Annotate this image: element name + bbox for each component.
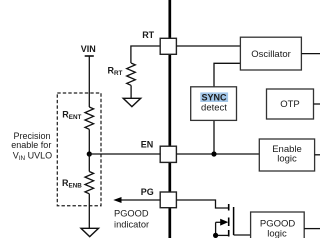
block OTP [267,89,314,119]
svg-text:logic: logic [267,228,287,238]
svg-text:VIN: VIN [81,44,96,54]
node junction dot on EN wire [211,151,216,156]
resistor RENT [85,107,94,129]
label Precision enable for VIN UVLO [11,131,52,162]
svg-text:Oscillator: Oscillator [251,49,291,60]
svg-text:detect: detect [201,103,227,114]
wire RENB to ground [88,194,90,229]
node MOSFET source junction dot [213,233,218,238]
svg-text:RT: RT [142,30,154,40]
wire IC boundary RT to EN [168,54,171,146]
wire EN divider to EN pin [89,153,160,155]
transistor PGOOD MOSFET [216,204,234,237]
resistor RENB [85,172,94,194]
wire EN pin to Enable logic [176,153,259,155]
svg-text:VIN UVLO: VIN UVLO [13,151,52,163]
svg-text:RRT: RRT [108,66,123,78]
node EN junction dot [87,151,92,156]
wire MOSFET gate to PGOOD logic [234,234,251,236]
ground under RENB [81,228,99,236]
wire PGOOD logic output [304,228,320,230]
pin EN [160,146,176,162]
block SYNC detect [191,87,237,121]
wire SYNC detect to EN wire [213,120,215,154]
wire IC boundary top segment [168,0,171,39]
wire RT pin to Oscillator [176,45,240,47]
block PGOOD logic [251,212,305,240]
svg-text:PG: PG [141,187,154,197]
ground under RRT [123,98,141,106]
svg-text:enable for: enable for [11,140,51,150]
wire RRT to ground [130,85,132,98]
dashed box precision enable [57,93,101,206]
pin PG [160,192,176,208]
wire RENT to EN node [88,129,90,154]
svg-text:logic: logic [277,154,297,165]
wire Enable logic output [315,154,320,156]
op Oscillator block [240,37,301,70]
wire IC boundary bottom segment [168,208,171,238]
block Enable logic [259,139,314,171]
label PGOOD indicator [114,209,149,230]
svg-text:RENT: RENT [62,109,81,121]
wire VIN to RENT [88,56,90,107]
wire PGOOD indicator arrow [113,197,160,203]
resistor RRT [127,63,136,85]
svg-text:indicator: indicator [114,220,149,230]
node VIN terminal bar [85,55,94,57]
wire OTP output [314,103,320,105]
svg-text:RENB: RENB [62,178,82,190]
svg-text:EN: EN [141,139,154,149]
wire IC boundary EN to PG [168,162,171,192]
svg-text:SYNC: SYNC [201,93,227,103]
svg-text:PGOOD: PGOOD [114,209,149,219]
svg-text:OTP: OTP [280,99,300,110]
wire RT pin to RRT [131,46,161,63]
wire junction to RENB [88,154,90,172]
wire PG pin to MOSFET drain [176,200,228,208]
wire SYNC detect to Oscillator [214,63,240,87]
pin RT [160,38,176,54]
wire Oscillator output [301,53,320,55]
